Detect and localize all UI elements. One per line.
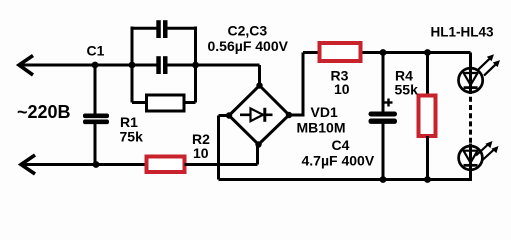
node block right — [192, 62, 199, 69]
wire parallel-block left vertical — [131, 27, 134, 103]
node R4 bottom — [424, 176, 431, 183]
svg-text:75k: 75k — [120, 129, 144, 145]
dashed wire LED string — [469, 97, 472, 144]
wire top branch — [132, 27, 158, 30]
label R1 — [120, 114, 144, 145]
wire C4 upper lead — [382, 53, 385, 113]
label VD1 MB10M — [297, 104, 346, 136]
resistor R2 — [147, 157, 185, 173]
svg-text:MB10M: MB10M — [297, 120, 346, 136]
arrow input top — [19, 56, 33, 76]
svg-text:C4: C4 — [332, 137, 350, 153]
wire bridge right stub to DC+ — [289, 114, 303, 117]
label R4 — [395, 68, 419, 98]
wire C1 lead upper — [94, 65, 97, 114]
wire C4 lower lead — [382, 124, 385, 180]
wire R4 upper lead — [426, 53, 429, 97]
capacitor C1 — [83, 114, 109, 125]
wire to LED1 — [469, 53, 472, 95]
LED HL43 — [459, 146, 483, 170]
wire drop to bridge top — [258, 65, 261, 86]
label C4 value — [302, 137, 375, 169]
LED2 emission arrows — [476, 141, 499, 161]
resistor R3 — [320, 43, 361, 61]
svg-text:C2,C3: C2,C3 — [228, 23, 268, 39]
svg-text:~220B: ~220B — [17, 102, 71, 122]
svg-text:10: 10 — [193, 145, 209, 161]
node bottom junction — [93, 161, 100, 168]
label R2 — [192, 131, 210, 161]
arrow input bottom — [21, 155, 35, 174]
wire DC- rail — [219, 178, 471, 181]
resistor R1 — [147, 95, 185, 111]
LED HL1 — [459, 68, 483, 92]
capacitor C3 — [156, 56, 167, 74]
svg-text:55k: 55k — [395, 82, 419, 98]
capacitor C4 — [369, 112, 398, 124]
LED1 emission arrows — [478, 54, 500, 75]
wire LED2 top stub — [469, 144, 472, 172]
node R4 top — [424, 49, 431, 56]
svg-text:4.7µF 400V: 4.7µF 400V — [302, 153, 375, 169]
resistor R4 — [419, 96, 436, 137]
label R3 — [331, 68, 350, 98]
bridge VD1 diamond — [229, 86, 289, 145]
wire DC+ rail — [303, 51, 471, 54]
node block left — [129, 62, 136, 69]
wire parallel-block right vertical — [194, 27, 197, 103]
svg-text:VD1: VD1 — [311, 104, 338, 120]
wire bottom branch — [132, 101, 148, 104]
wire top AC rail — [21, 64, 158, 67]
svg-text:HL1-HL43: HL1-HL43 — [431, 25, 495, 40]
wire C1 lead lower — [94, 124, 97, 165]
wire R2 to bridge bottom — [185, 163, 258, 166]
svg-text:C1: C1 — [87, 43, 105, 59]
label C2,C3 value — [208, 23, 289, 55]
node C4 top — [380, 49, 387, 56]
node C1 top junction — [92, 62, 99, 69]
wire bottom AC rail left — [23, 163, 147, 166]
svg-text:0.56µF 400V: 0.56µF 400V — [208, 38, 289, 54]
node C4 bottom — [380, 176, 387, 183]
bridge corner nodes — [226, 82, 292, 147]
wire bridge left stub to DC- — [219, 114, 230, 117]
capacitor C2 — [156, 20, 167, 38]
diode inside bridge — [240, 108, 273, 122]
wire LED2 bottom — [469, 170, 472, 181]
svg-text:10: 10 — [334, 81, 350, 97]
capacitor C4 polarity plus — [385, 99, 393, 107]
wire R4 lower lead — [426, 136, 429, 180]
